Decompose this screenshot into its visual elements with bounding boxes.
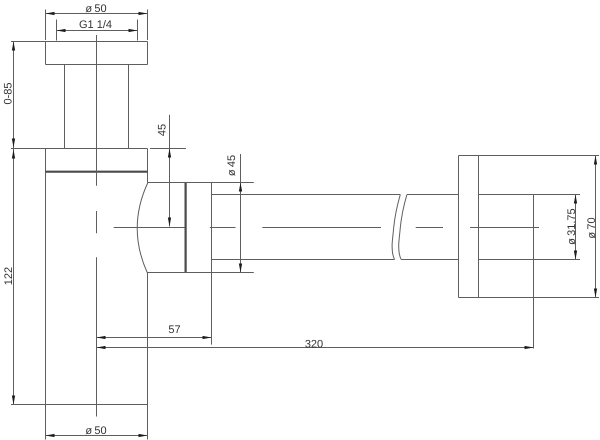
dimension 122: bottom extension line (11, 404, 46, 406)
wall flange top edge (with extension for dia70 dim) (459, 155, 600, 157)
dimension dia31.75: line (575, 195, 577, 260)
dimension 57: left arrowhead (97, 336, 106, 339)
dimension dia50 bottom: line (46, 435, 148, 437)
outlet nut top edge (with right extension for dia45 dim) (148, 182, 254, 184)
wall flange face line (478, 156, 480, 298)
tailpipe flange right edge (147, 42, 149, 65)
dimension dia50 top: left arrowhead (46, 12, 55, 15)
dimension 0-85: line (13, 42, 15, 149)
svg-text:ø 45: ø 45 (226, 155, 238, 176)
dimension dia50 top: left extension line (45, 10, 47, 41)
dimension dia70: bottom arrowhead (594, 289, 597, 298)
dimension 320: right arrowhead (525, 346, 534, 349)
body top edge (with left extension to dims) (11, 148, 148, 150)
svg-text:57: 57 (168, 324, 180, 336)
socket end vertical (extended down as 320 extension) (533, 195, 535, 349)
dimension dia45: bottom arrowhead (239, 264, 242, 273)
svg-text:0-85: 0-85 (3, 82, 15, 104)
dimension G1 1/4: line (57, 30, 138, 32)
tailpipe flange left edge (45, 42, 47, 65)
pipe top edge right of break (407, 194, 459, 196)
dimension G1 1/4: right extension line (137, 20, 139, 41)
wall flange bottom edge (with extension for dia70 dim) (459, 297, 600, 299)
dimension dia45: top arrowhead (239, 183, 242, 192)
tailpipe neck left edge (64, 65, 66, 149)
pipe bottom edge right of break (401, 259, 458, 261)
pipe top edge left of break (212, 194, 401, 196)
dimension dia45: line (240, 154, 242, 273)
socket top edge (with extension for dia31.75 dim) (479, 194, 581, 196)
body right edge lower segment (extended down as dia50 extension) (147, 273, 149, 440)
dimension dia50 top: right arrowhead (139, 12, 148, 15)
dimension 45: top arrowhead (168, 149, 171, 158)
dimension G1 1/4: left extension line (56, 20, 58, 41)
body bottom edge (46, 404, 148, 406)
dimension 320: line (97, 347, 534, 349)
dimension dia70: top arrowhead (594, 156, 597, 165)
dimension G1 1/4: left arrowhead (57, 29, 66, 32)
tailpipe flange bottom edge (46, 64, 148, 66)
svg-text:122: 122 (3, 267, 15, 285)
body joint thick line (46, 171, 148, 173)
outlet nut bottom edge (with right extension for dia45 dim) (147, 272, 254, 274)
socket bottom edge (with extension for dia31.75 dim) (479, 259, 581, 261)
dimension G1 1/4: right arrowhead (129, 29, 138, 32)
dimension dia50 bottom: right arrowhead (139, 434, 148, 437)
vertical center line of body (96, 35, 98, 417)
svg-text:45: 45 (156, 124, 168, 136)
dimension dia31.75: bottom arrowhead (574, 251, 577, 260)
svg-text:ø 50: ø 50 (85, 425, 106, 437)
outlet nut right edge (extended down as 57/320 extension) (211, 183, 213, 345)
pipe break curve left (392, 195, 400, 260)
svg-text:G1 1/4: G1 1/4 (79, 19, 112, 31)
pipe bottom edge left of break (212, 259, 395, 261)
dimension dia50 bottom: left arrowhead (46, 434, 55, 437)
dimension 122: bottom arrowhead (12, 396, 15, 405)
pipe break curve right (399, 195, 407, 260)
dimension 57: line (97, 337, 212, 339)
dimension 45: reference extension line (150, 148, 186, 150)
wall flange left edge (458, 156, 460, 298)
dimension dia31.75: top arrowhead (574, 195, 577, 204)
horizontal center line of pipe (114, 227, 539, 229)
dimension dia70: line (595, 156, 597, 298)
svg-text:ø 50: ø 50 (85, 3, 106, 15)
dimension 320: left arrowhead (97, 346, 106, 349)
svg-text:ø 70: ø 70 (586, 217, 598, 238)
dimension 45: line (169, 115, 171, 227)
svg-text:320: 320 (305, 338, 323, 350)
dimension 57: right arrowhead (203, 336, 212, 339)
dimension 45: bottom arrowhead (168, 218, 171, 227)
tailpipe neck right edge (128, 65, 130, 149)
body left edge (extended down as dia50 extension) (45, 149, 47, 440)
dimension 0-85: top arrowhead (12, 42, 15, 51)
tailpipe flange top edge (with left extension to 0-85 dim) (11, 41, 148, 43)
outlet nut thick left edge (185, 183, 187, 273)
dimension dia50 top: right extension line (147, 10, 149, 41)
dimension 0-85: bottom arrowhead (12, 139, 15, 148)
dimension dia50 top: line (46, 13, 148, 15)
outlet joint arc (137, 183, 148, 273)
dimension 122: line (13, 149, 15, 405)
dimension 122: top arrowhead (12, 150, 15, 159)
body right edge upper segment (147, 149, 149, 183)
svg-text:ø 31.75: ø 31.75 (566, 208, 578, 244)
